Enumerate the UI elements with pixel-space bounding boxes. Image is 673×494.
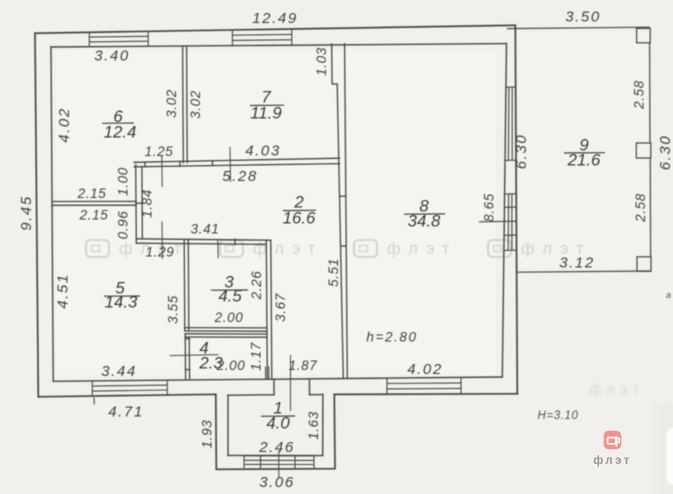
svg-text:флэт: флэт <box>593 455 632 467</box>
